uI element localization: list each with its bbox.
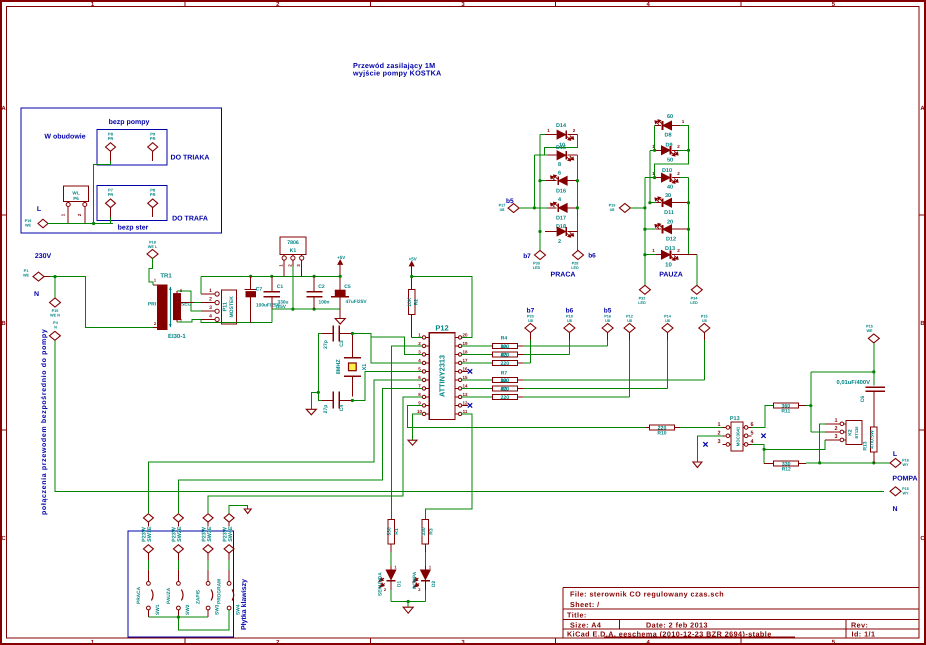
- svg-text:7: 7: [418, 384, 421, 389]
- wire R2 to pin1: [412, 336, 423, 338]
- svg-text:9: 9: [418, 401, 421, 406]
- wire P13 pin6 to R11: [752, 406, 774, 428]
- K1 pin 3: [301, 254, 303, 256]
- svg-text:330: 330: [387, 527, 393, 536]
- capacitor C2: [313, 276, 315, 291]
- svg-text:L: L: [37, 206, 42, 213]
- resistor R13: [871, 427, 878, 452]
- svg-text:U8: U8: [702, 319, 707, 323]
- svg-text:16: 16: [462, 367, 468, 372]
- svg-text:R7: R7: [501, 371, 508, 377]
- svg-text:Id: 1/1: Id: 1/1: [852, 629, 876, 638]
- svg-text:KiCad E.D.A. eeschema (2010-1: KiCad E.D.A. eeschema (2010-12-23 BZR 26…: [567, 629, 772, 638]
- wire C3 node to MCU pin4: [351, 332, 354, 335]
- svg-text:2: 2: [834, 426, 837, 432]
- svg-text:P19: P19: [609, 204, 616, 208]
- svg-text:U8: U8: [627, 319, 632, 323]
- wire pin11 to R3: [425, 414, 471, 519]
- svg-text:SW3: SW3: [215, 604, 221, 615]
- LED D1 SEKUNDA: [390, 544, 392, 552]
- top supply rail: [201, 275, 340, 277]
- no-connect P13 pin3: [703, 442, 707, 446]
- wire C4 node to MCU pin5: [351, 399, 354, 402]
- svg-text:18: 18: [462, 350, 468, 355]
- svg-text:C4: C4: [339, 405, 345, 412]
- svg-text:1: 1: [547, 128, 550, 133]
- svg-text:R5: R5: [501, 344, 508, 350]
- svg-text:8MHZ: 8MHZ: [336, 359, 342, 375]
- svg-text:1: 1: [61, 213, 66, 216]
- wire SEC top to bridge pin3: [177, 291, 201, 311]
- svg-text:POMPA: POMPA: [412, 571, 418, 589]
- svg-text:K2: K2: [848, 429, 854, 436]
- svg-text:P32: P32: [639, 296, 646, 300]
- no-connect pin12: [462, 404, 468, 406]
- svg-text:bezp ster: bezp ster: [118, 224, 149, 232]
- svg-text:2: 2: [287, 264, 292, 267]
- wire b6 to R5: [568, 340, 570, 354]
- pompa L wire: [806, 462, 890, 464]
- wire label to C6: [873, 343, 875, 386]
- wire node to K2 pin2: [811, 431, 825, 433]
- wire pin6 to keypad conn1: [148, 380, 422, 513]
- wire SEC right to bridge pin2: [181, 302, 195, 304]
- P12 pin 1: [426, 336, 430, 338]
- P12 pin 19: [455, 345, 459, 347]
- svg-text:2: 2: [573, 128, 576, 133]
- svg-text:P15: P15: [52, 309, 59, 313]
- svg-text:X1: X1: [362, 364, 368, 371]
- svg-text:50: 50: [667, 158, 673, 164]
- svg-text:D12: D12: [666, 237, 676, 243]
- svg-text:b7: b7: [523, 253, 531, 260]
- P13 pin 1: [726, 426, 731, 428]
- wires resistor outputs: [517, 345, 523, 347]
- svg-text:P17: P17: [499, 204, 506, 208]
- svg-text:1: 1: [834, 418, 837, 424]
- P13 pin 4: [743, 443, 748, 445]
- regulator K1 7806: [280, 237, 306, 255]
- gnd rail under caps: [272, 308, 340, 310]
- svg-text:D16: D16: [556, 189, 566, 195]
- enclosure box W obudowie: [21, 108, 222, 233]
- svg-text:połączenia przewodem bezpośred: połączenia przewodem bezpośrednio do pom…: [40, 329, 48, 515]
- svg-text:R5: R5: [501, 353, 508, 359]
- svg-text:R4: R4: [501, 336, 508, 342]
- svg-text:3: 3: [418, 350, 421, 355]
- svg-text:R13: R13: [863, 441, 869, 450]
- svg-text:PRACA: PRACA: [136, 586, 142, 604]
- svg-text:WY: WY: [902, 463, 909, 467]
- svg-text:1: 1: [652, 248, 655, 253]
- right vertical C pauza: [688, 178, 690, 255]
- svg-text:D15: D15: [556, 145, 566, 151]
- svg-text:2: 2: [677, 144, 680, 149]
- svg-text:P20: P20: [527, 315, 534, 319]
- switch SW1 PRACA: [147, 582, 151, 586]
- wire b5 to R4: [607, 340, 609, 346]
- svg-text:/25V: /25V: [276, 304, 287, 310]
- svg-text:N: N: [54, 326, 57, 330]
- P12 pin 18: [455, 353, 459, 355]
- svg-text:19: 19: [462, 341, 468, 346]
- wire pin3 jog: [371, 337, 423, 355]
- b7 vertical: [539, 135, 541, 251]
- svg-text:b6: b6: [588, 253, 596, 260]
- keypad connector SW4 top: [224, 514, 234, 522]
- svg-text:15: 15: [462, 375, 468, 380]
- svg-text:P12: P12: [626, 315, 633, 319]
- svg-text:1: 1: [682, 119, 685, 124]
- wire D8 right elbow: [655, 126, 689, 178]
- wire D15 anode: [534, 154, 548, 156]
- switch SW4 PROGRAM: [227, 582, 231, 586]
- wire R11 to triac node: [806, 405, 811, 407]
- wire K2 pin1 to L line: [820, 424, 825, 463]
- svg-text:C7: C7: [256, 287, 263, 293]
- svg-text:3: 3: [834, 434, 837, 440]
- svg-text:SW4E: SW4E: [228, 526, 234, 542]
- svg-text:8: 8: [558, 162, 561, 168]
- svg-text:B: B: [920, 320, 925, 327]
- svg-text:DO TRAFA: DO TRAFA: [172, 216, 208, 223]
- P12 pin 3: [426, 353, 430, 355]
- LED D2 POMPA: [424, 544, 426, 552]
- svg-text:SW1: SW1: [155, 604, 161, 615]
- svg-text:1: 1: [418, 333, 421, 338]
- svg-text:P15: P15: [902, 487, 909, 491]
- secondary winding: [174, 294, 181, 320]
- wire b5 to column: [519, 207, 547, 209]
- svg-text:P14: P14: [664, 315, 672, 319]
- keypad connector SW3 top: [203, 514, 213, 522]
- svg-text:D2: D2: [431, 581, 437, 587]
- svg-text:27p: 27p: [323, 340, 329, 349]
- svg-text:PR: PR: [150, 136, 156, 141]
- svg-text:LED: LED: [571, 266, 579, 270]
- svg-text:WY: WY: [902, 492, 909, 496]
- no-connect pin16: [462, 370, 468, 372]
- resistor R2 10K: [408, 290, 415, 315]
- P12 pin 15: [455, 379, 459, 381]
- svg-text:1: 1: [429, 565, 432, 570]
- wire label5 to R8 elbow: [667, 340, 669, 388]
- svg-text:4: 4: [418, 358, 421, 363]
- svg-text:PR: PR: [108, 136, 114, 141]
- wire crystal left side to gnd: [318, 334, 322, 401]
- svg-text:POMPA: POMPA: [892, 476, 917, 483]
- K2 pin 2: [840, 431, 846, 433]
- wire +5V rail to pin20: [412, 277, 472, 338]
- svg-text:P16: P16: [902, 459, 909, 463]
- note text: power cable annotation: [352, 61, 441, 78]
- svg-text:BT136: BT136: [854, 426, 859, 439]
- keypad inner pin SW4: [224, 545, 234, 553]
- P12 pin 20: [455, 336, 459, 338]
- svg-text:U8: U8: [500, 208, 505, 212]
- svg-text:C: C: [920, 535, 925, 542]
- svg-text:MOSTEK: MOSTEK: [229, 296, 235, 318]
- svg-text:R9: R9: [501, 387, 508, 393]
- svg-text:2: 2: [418, 587, 421, 592]
- wire pin10 to ground: [413, 414, 423, 440]
- svg-text:b5: b5: [604, 308, 612, 315]
- wire P10 to primary: [149, 259, 153, 285]
- keypad inner pin SW3: [203, 545, 213, 553]
- svg-text:A: A: [920, 105, 925, 112]
- global label pauza bottom right: [691, 285, 702, 294]
- K2 pin 1: [840, 423, 846, 425]
- P12 pin 16: [455, 370, 459, 372]
- svg-text:20: 20: [667, 220, 673, 226]
- svg-text:U8: U8: [605, 319, 610, 323]
- svg-text:2: 2: [384, 587, 387, 592]
- wire D13 right down: [696, 255, 698, 286]
- svg-text:8: 8: [418, 392, 421, 397]
- connector box bezp ster (DO TRAFA): [97, 186, 167, 221]
- wire D14 anode: [540, 134, 545, 136]
- svg-text:LED: LED: [533, 266, 541, 270]
- svg-text:Rev:: Rev:: [851, 621, 868, 630]
- wire pin9 to R10: [408, 405, 647, 427]
- wire label6 to R7 elbow: [703, 340, 705, 380]
- svg-text:U8: U8: [665, 319, 670, 323]
- svg-text:3: 3: [209, 305, 212, 311]
- svg-text:ATTINY2313: ATTINY2313: [438, 355, 447, 397]
- svg-text:47/0.5W: 47/0.5W: [869, 430, 875, 449]
- wire from DO TRIAKA pin down: [94, 161, 111, 224]
- svg-text:D1: D1: [397, 581, 403, 587]
- svg-text:WE N: WE N: [50, 314, 60, 318]
- svg-text:WE: WE: [25, 224, 32, 228]
- svg-text:11: 11: [463, 409, 468, 414]
- svg-text:SW2: SW2: [185, 604, 191, 615]
- wires pins 15-13 to resistors: [462, 379, 493, 381]
- svg-text:PR: PR: [108, 192, 114, 197]
- wires pins 19-17 to resistors: [462, 345, 493, 347]
- global label POMPA L: [890, 458, 901, 467]
- svg-text:10: 10: [665, 262, 672, 269]
- svg-text:P4: P4: [53, 321, 59, 325]
- svg-text:13: 13: [462, 392, 468, 397]
- P12 pin 10: [426, 413, 430, 415]
- svg-text:2: 2: [154, 321, 157, 326]
- wire pin8 to keypad conn3: [208, 397, 422, 513]
- svg-text:D11: D11: [664, 210, 674, 216]
- svg-text:230V: 230V: [35, 253, 52, 260]
- svg-text:PRI: PRI: [148, 302, 157, 308]
- svg-text:1: 1: [209, 288, 212, 294]
- resistor R11: [773, 403, 798, 408]
- svg-text:D17: D17: [556, 216, 566, 222]
- svg-text:+5V: +5V: [409, 257, 417, 262]
- svg-text:P12: P12: [435, 324, 448, 333]
- svg-text:12: 12: [462, 401, 468, 406]
- title block: [563, 588, 919, 638]
- svg-text:PR: PR: [150, 192, 156, 197]
- K1 pin 1: [283, 254, 285, 256]
- keypad connector SW2 top: [173, 514, 183, 522]
- svg-text:C5: C5: [344, 284, 351, 290]
- wire D1 D2 common to gnd: [391, 601, 425, 603]
- svg-text:N: N: [892, 506, 897, 513]
- svg-text:10K: 10K: [407, 297, 413, 307]
- svg-text:WE: WE: [866, 329, 873, 333]
- svg-text:Płytka klawiszy: Płytka klawiszy: [240, 579, 248, 630]
- keypad connector SW1 top: [143, 514, 153, 522]
- svg-text:P15: P15: [866, 325, 873, 329]
- svg-text:R2: R2: [414, 299, 420, 306]
- wire L to fuse and boxes: [48, 223, 113, 225]
- P13 pin 2: [726, 435, 731, 437]
- svg-text:D9: D9: [665, 143, 672, 149]
- svg-text:C2: C2: [318, 284, 325, 290]
- global label pauza bottom left: [639, 285, 650, 294]
- svg-text:220: 220: [500, 395, 509, 401]
- svg-text:3: 3: [717, 439, 720, 445]
- wire pin7 to keypad conn2: [178, 388, 422, 513]
- svg-text:LED: LED: [690, 301, 698, 305]
- svg-text:30: 30: [665, 193, 671, 199]
- svg-text:40: 40: [667, 185, 673, 191]
- wire D8 left elbow: [654, 126, 656, 151]
- P11 pin 2: [215, 301, 219, 305]
- P12 pin 5: [426, 370, 430, 372]
- svg-text:PRACA: PRACA: [551, 272, 576, 279]
- vertical A down pauza: [644, 178, 646, 286]
- no-connect P13 pin5: [761, 434, 765, 438]
- wire bridge plus to top rail: [200, 276, 202, 294]
- keypad conn4 ground: [229, 506, 248, 514]
- switch SW3 ZAPIS: [206, 582, 210, 586]
- wire P13 pin4 to gate and R12: [752, 444, 765, 463]
- global label POMPA N: [890, 487, 901, 496]
- transformer core: [169, 287, 171, 327]
- P12 pin 6: [426, 379, 430, 381]
- resistor R5: [492, 352, 517, 357]
- P12 pin 9: [426, 404, 430, 406]
- svg-text:P28: P28: [572, 262, 579, 266]
- svg-text:U8: U8: [567, 319, 572, 323]
- svg-text:C1: C1: [277, 284, 284, 290]
- K2 pin 3: [840, 439, 846, 441]
- svg-text:100n: 100n: [319, 300, 330, 306]
- svg-text:D14: D14: [556, 123, 567, 129]
- svg-text:P19: P19: [25, 219, 32, 223]
- svg-text:PAUZA: PAUZA: [659, 272, 683, 279]
- svg-text:60: 60: [667, 114, 673, 120]
- P13 pin 6: [743, 426, 748, 428]
- P12 pin 7: [426, 387, 430, 389]
- P12 pin 2: [426, 345, 430, 347]
- wire pin2 to R1: [392, 346, 423, 519]
- ground below C5: [335, 319, 345, 325]
- P12 pin 13: [455, 396, 459, 398]
- ground below MCU: [408, 440, 417, 445]
- svg-text:R1: R1: [394, 528, 400, 535]
- svg-text:Sheet: /: Sheet: /: [570, 600, 600, 609]
- resistor R6: [492, 360, 517, 365]
- wire SEC bottom to bridge pin4 elbow: [177, 319, 201, 322]
- ground for crystal caps: [306, 409, 316, 415]
- svg-text:U8: U8: [528, 319, 533, 323]
- svg-text:R11: R11: [781, 409, 790, 415]
- svg-text:C3: C3: [339, 340, 345, 347]
- svg-text:DO TRIAKA: DO TRIAKA: [171, 155, 210, 162]
- svg-text:K1: K1: [290, 248, 297, 254]
- P12 pin 4: [426, 362, 430, 364]
- wire L 230V to transformer: [44, 276, 50, 278]
- P12 pin 12: [455, 404, 459, 406]
- fuse WL P6: [63, 186, 88, 202]
- svg-text:P6: P6: [73, 196, 79, 201]
- wire node to C6 top: [811, 371, 874, 373]
- keypad inner pin SW2: [173, 545, 183, 553]
- resistor R9: [492, 394, 517, 399]
- svg-text:LED: LED: [638, 301, 646, 305]
- wire D12 left: [645, 228, 656, 230]
- svg-text:10: 10: [417, 409, 423, 414]
- svg-text:P13: P13: [730, 416, 740, 422]
- svg-text:P16: P16: [604, 315, 611, 319]
- wire R10 to P13 pin1: [680, 426, 723, 428]
- svg-text:6: 6: [418, 375, 421, 380]
- svg-text:R3: R3: [428, 528, 434, 535]
- P13 pin 5: [743, 435, 748, 437]
- svg-text:2: 2: [418, 341, 421, 346]
- svg-text:P1: P1: [24, 269, 29, 273]
- P12 pin 11: [455, 413, 459, 415]
- resistor R3: [422, 519, 429, 544]
- capacitor C4: [332, 392, 334, 409]
- power symbol +5V right: [411, 265, 413, 277]
- wire D13 left: [645, 254, 656, 256]
- power symbol +5V left: [339, 263, 341, 276]
- svg-text:MOC3041: MOC3041: [736, 426, 741, 446]
- svg-text:P18: P18: [566, 315, 573, 319]
- svg-text:27p: 27p: [323, 405, 329, 414]
- P11 pin 3: [215, 309, 219, 313]
- P13 pin 3: [726, 443, 731, 445]
- IC P12 ATTINY2313: [429, 333, 455, 420]
- wire D9 right: [678, 149, 689, 151]
- svg-text:B: B: [1, 320, 6, 327]
- svg-text:17: 17: [462, 358, 468, 363]
- svg-text:7806: 7806: [287, 240, 299, 246]
- wire K1 gnd pin to rail: [292, 260, 294, 266]
- svg-text:D8: D8: [664, 133, 671, 139]
- wire b5 vertical: [533, 155, 535, 208]
- svg-text:PROGRAM: PROGRAM: [217, 579, 223, 604]
- svg-text:2: 2: [77, 213, 82, 216]
- svg-text:N: N: [34, 291, 39, 298]
- wire stub DO TRAFA pin: [110, 217, 112, 224]
- svg-text:EI30-1: EI30-1: [168, 333, 186, 340]
- svg-text:WL: WL: [72, 191, 79, 196]
- svg-text:4: 4: [558, 197, 562, 203]
- svg-text:0,01uF/400V: 0,01uF/400V: [836, 379, 870, 386]
- svg-text:P34: P34: [691, 296, 699, 300]
- svg-text:Size: A4: Size: A4: [570, 621, 601, 630]
- svg-text:A: A: [1, 105, 6, 112]
- svg-text:2: 2: [209, 297, 212, 303]
- svg-text:1: 1: [717, 422, 720, 428]
- svg-text:P11: P11: [223, 302, 229, 311]
- svg-text:2: 2: [558, 239, 561, 245]
- svg-text:L: L: [893, 451, 898, 458]
- svg-text:5: 5: [418, 367, 421, 372]
- svg-text:b7: b7: [527, 308, 535, 315]
